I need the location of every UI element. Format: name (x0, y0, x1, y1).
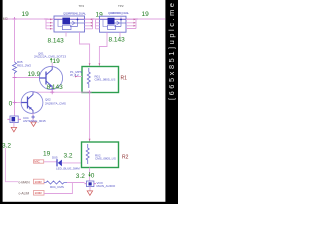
wire T1 base y=77.5 (15, 77, 40, 79)
svg-text:o-MAIN: o-MAIN (19, 181, 31, 185)
junction at (92.5,19) (91, 18, 95, 20)
junction at (89.6,92.2) (88, 90, 92, 94)
junction at (136,19) (134, 18, 138, 20)
svg-text:8.143: 8.143 (47, 84, 64, 91)
wire LED to R2 (62, 162, 82, 164)
svg-text:19: 19 (53, 58, 61, 65)
svg-text:o-ALIM: o-ALIM (19, 192, 30, 196)
U1 left pin bus (46, 19, 54, 29)
wire R04 to VOX node (67, 182, 85, 184)
connector VOX node (85, 181, 97, 187)
transistor Q01 (39, 66, 62, 89)
wire Q02 base (15, 102, 22, 104)
svg-text:R2: R2 (122, 154, 129, 160)
junction at (52.2,92.2) (50, 90, 54, 94)
svg-text:MIC: MIC (34, 160, 40, 164)
port ALIM label box (34, 191, 45, 196)
svg-text:3.2: 3.2 (64, 153, 73, 160)
junction at (14.5,77.5) (13, 77, 17, 79)
svg-text:RES_2W2: RES_2W2 (17, 63, 31, 67)
wire Q01 collector stub up (51, 63, 53, 67)
wire Q02 bottom stub (32, 113, 34, 121)
U1 bottom pin wire to R1 (80, 32, 90, 67)
U1 bottom pin stub (nc) (65, 32, 67, 37)
wire R1 bottom to R2 top x=89.6 (89, 93, 91, 143)
bottom black border bar (0, 202, 178, 204)
svg-text:8.143: 8.143 (48, 38, 65, 45)
ground under VOX (87, 191, 92, 195)
U1 right pin arrows (90, 18, 92, 26)
port MAIN label box (34, 179, 45, 184)
R1 top pin arrow (left) (89, 63, 91, 66)
svg-text:2N2222A_CMS_SOT23: 2N2222A_CMS_SOT23 (34, 55, 66, 59)
resistor block R1 box (82, 67, 119, 93)
svg-text:Q03/IRF9540_DUAL: Q03/IRF9540_DUAL (108, 11, 129, 15)
svg-text:3.2: 3.2 (2, 142, 11, 149)
wire VOX to ground (89, 187, 91, 191)
resistor R02 inside R2 (86, 144, 116, 164)
svg-text:3.2: 3.2 (76, 173, 85, 180)
ground under C04 (11, 127, 16, 131)
left black border bar (0, 0, 3, 204)
svg-text:100R: 100R (35, 191, 43, 195)
wire Q01 emitter stub down (51, 90, 53, 93)
wire ALIM to VOX node (44, 183, 72, 194)
svg-text:TP4: TP4 (79, 4, 85, 8)
wire R2 bottom to VOX node (89, 168, 91, 182)
svg-text:W_8.2: W_8.2 (70, 73, 79, 77)
svg-text:CMS_0805_US: CMS_0805_US (95, 78, 116, 82)
wire main +19 rail y=19 (5, 18, 165, 20)
wire left bus x=14.5 down from rail (14, 19, 16, 62)
U2 right pin arrows (134, 18, 136, 26)
svg-text:D05: D05 (52, 156, 58, 160)
wire Q02 top to emitter row (32, 91, 34, 93)
junction at (14.5,102.5) (13, 101, 17, 105)
wire left drop to MAIN row (5, 148, 18, 182)
svg-text:19: 19 (142, 11, 150, 18)
svg-text:0: 0 (9, 100, 13, 107)
wire left bus resistor to base row (14, 74, 16, 116)
transistor Q02 (21, 92, 43, 114)
svg-text:ANTENNE_9015: ANTENNE_9015 (23, 119, 46, 123)
mosfet pair U1 (54, 16, 85, 32)
svg-text:0: 0 (91, 173, 95, 180)
mosfet pair U2 (100, 16, 127, 32)
svg-text:LED_BLUE_5MM: LED_BLUE_5MM (56, 166, 80, 170)
R1 left pin arrow (75, 76, 77, 78)
junction at (14.5,19) (13, 17, 17, 21)
port MICRO label box (34, 160, 44, 163)
R1 top pin arrow (right) (99, 63, 101, 66)
svg-text:19.9: 19.9 (28, 71, 41, 78)
capacitor C04 (7, 116, 21, 123)
svg-text:CMS_0805_US: CMS_0805_US (95, 157, 116, 161)
svg-text:100R: 100R (35, 180, 43, 184)
U1 left pin arrows (50, 18, 52, 29)
U2 left pin bus (96, 19, 100, 29)
svg-text:8.143: 8.143 (109, 36, 126, 43)
wire emitter row y=92 (33, 91, 90, 93)
R1 left pin wire (75, 76, 82, 78)
svg-text:19: 19 (22, 11, 30, 18)
svg-text:2N2907A_CMS: 2N2907A_CMS (45, 102, 66, 106)
right watermark bar (165, 0, 178, 204)
diode D05 (LED) (57, 159, 62, 166)
resistor R01 inside R1 (87, 68, 115, 88)
svg-text:R1: R1 (121, 76, 128, 82)
svg-text:19: 19 (43, 151, 51, 158)
wire MICRO to LED (44, 161, 57, 163)
resistor block R2 box (82, 142, 119, 168)
R2 top pin arrow (89, 139, 91, 142)
resistor R04 (44, 181, 67, 189)
U2 bottom pin stub (nc) (119, 32, 121, 37)
svg-text:R04_CMS: R04_CMS (50, 185, 64, 189)
svg-text:MAIN_AUDIO: MAIN_AUDIO (97, 184, 116, 188)
ground under Q02 (31, 122, 36, 126)
resistor R05 (13, 60, 32, 74)
junction at (46,19) (44, 18, 48, 20)
svg-text:TP2: TP2 (118, 4, 124, 8)
junction mark Q02 bottom (31, 115, 35, 119)
svg-text:Q02/IRF9540_DUAL: Q02/IRF9540_DUAL (63, 12, 86, 16)
wire C04 bottom stub (13, 123, 15, 127)
U2 right pin bus (126, 19, 136, 29)
U2 bottom pin wire to R1 (99, 32, 107, 66)
U1 right pin bus (85, 19, 93, 29)
